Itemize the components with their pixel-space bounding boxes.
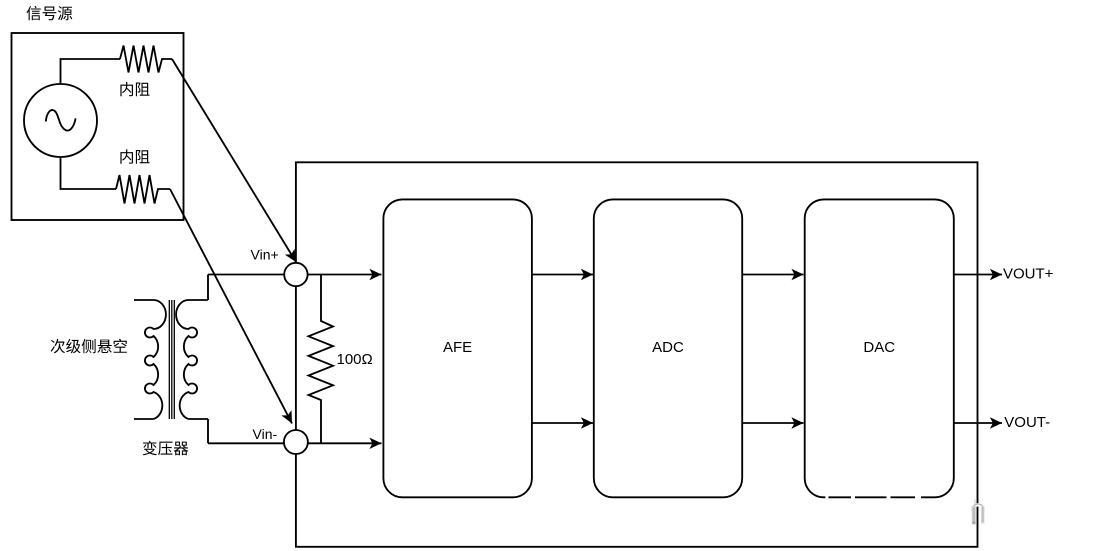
- svg-text:Vin-: Vin-: [253, 426, 278, 442]
- svg-text:ADC: ADC: [652, 339, 684, 356]
- svg-text:AFE: AFE: [443, 339, 472, 356]
- svg-text:VOUT+: VOUT+: [1003, 265, 1054, 282]
- svg-text:Vin+: Vin+: [251, 247, 279, 263]
- svg-text:DAC: DAC: [863, 339, 895, 356]
- svg-text:VOUT-: VOUT-: [1004, 414, 1050, 431]
- svg-text:100Ω: 100Ω: [337, 351, 373, 368]
